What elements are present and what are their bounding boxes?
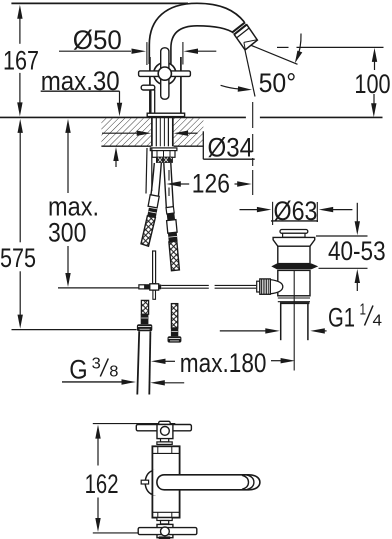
- pop-up rod below deck (upper segment): [146, 148, 147, 194]
- aerator tip: [232, 22, 258, 50]
- deck slab left (hatched): [101, 118, 151, 145]
- svg-text:8: 8: [109, 364, 118, 381]
- right hose dark band 2: [168, 232, 178, 242]
- svg-text:G1: G1: [328, 303, 355, 333]
- svg-text:575: 575: [0, 243, 36, 273]
- right hose lower braided end: [171, 304, 177, 328]
- horizontal pop-up rod to waste: [58, 287, 139, 289]
- svg-text:126: 126: [192, 169, 230, 199]
- right hose ferrule (white block): [167, 220, 178, 234]
- bottom view: bottom boss: [159, 536, 171, 539]
- svg-text:40-53: 40-53: [328, 236, 386, 266]
- svg-text:4: 4: [373, 313, 383, 330]
- svg-text:Ø34: Ø34: [208, 132, 254, 162]
- svg-text:G: G: [69, 355, 87, 385]
- bottom view: top boss: [159, 421, 171, 426]
- threaded shank through deck: [152, 117, 173, 146]
- outlet level horizontal line (for 100 dim): [277, 46, 289, 48]
- svg-text:max.180: max.180: [180, 348, 267, 378]
- right hose dark band: [167, 213, 175, 221]
- dimension Ø34 arrows: [102, 131, 198, 136]
- bottom view: top hub: [157, 425, 173, 439]
- deck reference line: [0, 116, 246, 118]
- waste top cap: [280, 230, 308, 234]
- dimension 126: [166, 169, 251, 199]
- svg-text:167: 167: [3, 45, 39, 75]
- left hose lower braided end: [141, 300, 148, 314]
- waste flange: [273, 237, 315, 246]
- waste lower body: [278, 270, 310, 295]
- dimension max.300: [48, 119, 99, 287]
- right flexible hose (upper, smooth part): [164, 163, 174, 208]
- svg-text:300: 300: [48, 217, 86, 247]
- right hose joint: [166, 207, 174, 214]
- dimension 167: [3, 5, 39, 117]
- cross handle hub: [154, 63, 176, 85]
- bottom view: spout: [157, 475, 260, 490]
- bottom view: neck and collar: [161, 439, 169, 442]
- svg-text:Ø50: Ø50: [73, 25, 122, 55]
- label Ø34 with bracket: [203, 131, 254, 162]
- bottom view: top cross bar: [136, 425, 191, 431]
- faucet body column: [150, 57, 181, 113]
- waste tailpipe: [281, 271, 308, 371]
- mounting nut: [152, 151, 175, 158]
- gooseneck spout inner curve: [171, 26, 235, 64]
- svg-text:50°: 50°: [259, 68, 297, 98]
- pop-up rod knob (above deck): [141, 85, 155, 90]
- dimension Ø63: [240, 196, 353, 226]
- left hose nut: [137, 324, 152, 331]
- bottom view: left ellipse: [145, 471, 162, 495]
- knurled nut: [257, 279, 271, 294]
- hose collar: [157, 157, 173, 162]
- pop-up rod lower segment: [153, 251, 156, 284]
- side port bulge: [270, 280, 283, 294]
- rod clamp fitting: [139, 284, 161, 290]
- label max.30 with leader arrow to deck: [41, 66, 123, 167]
- svg-text:100: 100: [354, 69, 390, 99]
- bottom view: bottom hub: [157, 524, 173, 537]
- top reference line (spout apex level): [11, 2, 188, 4]
- horizontal rod (right part, double line): [161, 285, 256, 288]
- dimension 575: [0, 119, 36, 329]
- waste ring section: [278, 296, 310, 303]
- label 50 degrees with leader and arc arrow: [221, 34, 303, 99]
- bottom view: bottom collar and neck: [157, 518, 172, 521]
- spout outlet vertical centerline (dashed): [252, 102, 254, 195]
- dimension 40-53: [316, 203, 386, 291]
- left hose ferrule (white block): [148, 195, 159, 208]
- dimension 162: [85, 425, 119, 532]
- left hose dark band: [147, 208, 157, 217]
- cross handle vertical bar: [161, 48, 169, 99]
- left flexible hose (upper, smooth part): [151, 163, 161, 196]
- handle center circle: [158, 67, 171, 80]
- extension lines: [93, 423, 176, 425]
- right hose braided section: [169, 241, 180, 271]
- bottom view: body overlay: [152, 470, 179, 495]
- bottom view: bottom cross bar: [138, 528, 197, 535]
- base plate on deck: [147, 113, 184, 116]
- label Ø50 with leader: [59, 25, 216, 65]
- dimension G1 1/4: [220, 302, 382, 334]
- washer under deck: [150, 148, 177, 151]
- cross handle horizontal bar: [139, 71, 191, 77]
- supply tube G3/8: [137, 331, 150, 394]
- left hose braided section: [141, 216, 155, 246]
- waste upper body: [278, 246, 310, 263]
- svg-text:162: 162: [85, 469, 119, 499]
- right hose lower dark band: [171, 328, 178, 336]
- bottom view: left pin: [141, 480, 148, 484]
- deck slab right (hatched): [174, 118, 204, 145]
- rubber gasket: [271, 264, 318, 270]
- gooseneck spout outer curve: [149, 3, 244, 64]
- 575 lower reference line: [12, 329, 137, 331]
- label G3/8: [62, 355, 184, 386]
- svg-text:1: 1: [360, 302, 367, 319]
- svg-text:3: 3: [92, 355, 101, 372]
- dimension 100: [354, 48, 390, 117]
- left hose lower dark band: [141, 314, 149, 324]
- dimension max.180: [151, 348, 295, 378]
- bottom view: body: [152, 446, 179, 517]
- right hose nut: [168, 336, 182, 342]
